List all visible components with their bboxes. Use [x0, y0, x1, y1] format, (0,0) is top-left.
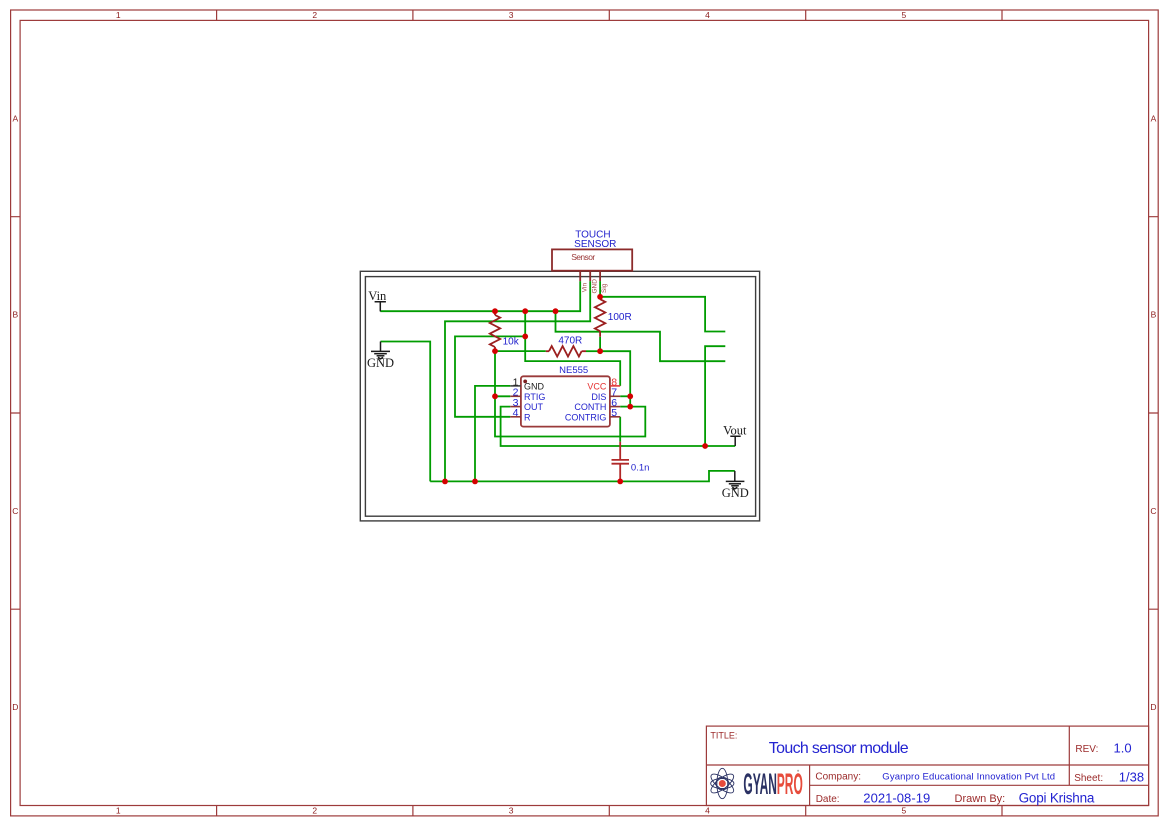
wire VCC net to pin 8 [525, 311, 620, 386]
svg-text:4: 4 [705, 10, 710, 20]
svg-text:Sensor: Sensor [571, 252, 595, 262]
svg-text:Gopi Krishna: Gopi Krishna [1019, 791, 1095, 806]
pin numbers right [611, 376, 617, 419]
column ticks top [217, 10, 1002, 20]
svg-text:4: 4 [705, 806, 710, 816]
pin GND of sensor [589, 271, 591, 281]
junction VCC branch / reset net [522, 334, 528, 340]
wire pin 5 to capacitor [619, 417, 621, 442]
svg-text:NE555: NE555 [559, 365, 588, 376]
junction Vin rail / 10k [492, 308, 498, 314]
pin 6 stub [610, 406, 620, 408]
pin 5 stub [610, 416, 620, 418]
pin Sig of sensor [599, 271, 601, 281]
junction rail / capacitor [617, 479, 623, 485]
svg-text:CONTH: CONTH [574, 402, 606, 412]
svg-text:D: D [12, 702, 18, 712]
wire pin 6 stub connection [620, 406, 630, 408]
pin labels left [524, 381, 545, 422]
svg-text:2: 2 [312, 806, 317, 816]
pin 7 stub [610, 395, 620, 397]
svg-text:GND: GND [367, 356, 394, 370]
svg-text:Vin: Vin [368, 289, 387, 303]
junction 470R right / 100R bottom [597, 348, 603, 354]
connector J1 Sensor [552, 249, 632, 293]
wire 100R bottom row to right stub [556, 311, 726, 361]
svg-text:1/38: 1/38 [1119, 769, 1144, 784]
svg-text:1: 1 [116, 806, 121, 816]
junction Vin rail / VCC branch [522, 308, 528, 314]
wire reset pin 4 net [455, 336, 525, 416]
net flag Vin [368, 289, 387, 312]
junction pin 7 [627, 393, 633, 399]
pin 1 stub [510, 385, 521, 387]
svg-text:D: D [1150, 702, 1156, 712]
resistor 100R [595, 297, 605, 337]
svg-text:PRO: PRO [777, 766, 803, 800]
svg-text:Sheet:: Sheet: [1074, 773, 1103, 784]
svg-text:VCC: VCC [587, 381, 607, 391]
wire pin 2 loop to pin 6 [495, 396, 645, 436]
net flag Vout [723, 423, 747, 446]
row ticks left [11, 217, 21, 610]
row ticks right [1149, 217, 1159, 610]
svg-text:TITLE:: TITLE: [710, 731, 737, 741]
svg-text:GND: GND [591, 279, 598, 294]
resistor 470R [546, 346, 586, 356]
junction pin 6 [627, 404, 633, 410]
svg-text:DIS: DIS [591, 392, 606, 402]
wire sensor GND pin to bottom rail [445, 281, 590, 481]
svg-text:10k: 10k [503, 336, 520, 347]
pin 3 stub [510, 406, 521, 408]
wire 470R left lead [495, 350, 546, 352]
svg-text:2021-08-19: 2021-08-19 [863, 790, 930, 805]
junction pin 2 [492, 393, 498, 399]
wire GND flag left [381, 342, 431, 482]
junction Vout node [702, 443, 708, 449]
pin Vin of sensor [579, 271, 581, 281]
label TOUCH SENSOR [574, 230, 616, 250]
svg-text:OUT: OUT [524, 402, 544, 412]
wire 470R right node down to pin 7 [600, 351, 630, 406]
svg-text:B: B [12, 310, 18, 320]
ground GND left [371, 342, 390, 359]
wire 10k bottom to pin 2 [495, 351, 510, 396]
ground GND right [726, 471, 745, 489]
svg-text:CONTRIG: CONTRIG [565, 412, 607, 422]
svg-text:RTIG: RTIG [524, 392, 545, 402]
svg-text:Sig: Sig [601, 283, 608, 293]
capacitor 0.1n [612, 442, 630, 482]
pin numbers left [513, 376, 519, 419]
svg-text:R: R [524, 412, 531, 422]
wire sensor Sig pin to junction [599, 281, 601, 297]
pin 1 indicator dot [523, 380, 527, 384]
svg-text:REV:: REV: [1075, 744, 1098, 755]
svg-text:C: C [1150, 506, 1156, 516]
pin labels right [565, 381, 607, 422]
svg-text:A: A [12, 113, 18, 123]
svg-text:5: 5 [611, 407, 617, 419]
svg-text:GND: GND [524, 381, 545, 391]
column ticks bottom [217, 806, 1002, 816]
svg-text:B: B [1151, 310, 1157, 320]
svg-text:GND: GND [722, 486, 749, 500]
wire 470R right lead [586, 350, 600, 352]
svg-text:5: 5 [902, 806, 907, 816]
svg-text:Vin: Vin [581, 283, 588, 293]
svg-text:100R: 100R [608, 312, 632, 323]
IC U1 NE555 [510, 365, 620, 427]
junction Sig node [597, 294, 603, 300]
svg-text:4: 4 [513, 407, 519, 419]
svg-text:Touch sensor module: Touch sensor module [769, 740, 909, 757]
svg-text:SENSOR: SENSOR [574, 239, 616, 250]
svg-text:GYAN: GYAN [743, 766, 777, 800]
junction rail / pin 1 [472, 479, 478, 485]
svg-text:0.1n: 0.1n [631, 462, 650, 473]
svg-text:1.0: 1.0 [1114, 740, 1132, 755]
svg-text:1: 1 [116, 10, 121, 20]
junction Vin rail / 100R row branch [553, 308, 559, 314]
wire 100R bottom lead to node [599, 337, 601, 351]
resistor R? 10k [490, 311, 500, 351]
svg-text:Drawn By:: Drawn By: [955, 793, 1006, 805]
wire OUT pin 3 to Vout [501, 407, 736, 446]
svg-text:2: 2 [312, 10, 317, 20]
wire pin 7 stub connection [620, 395, 630, 397]
wire Sig node to right stub [600, 297, 725, 332]
svg-text:5: 5 [902, 10, 907, 20]
svg-text:Date:: Date: [816, 794, 840, 805]
junction 10k bottom / 470R [492, 348, 498, 354]
pin 4 stub [510, 416, 521, 418]
svg-text:Vout: Vout [723, 423, 747, 437]
wire pin 1 to ground rail [475, 386, 510, 482]
junction rail / sensor GND [442, 479, 448, 485]
svg-text:Gyanpro Educational Innovation: Gyanpro Educational Innovation Pvt Ltd [882, 772, 1055, 783]
svg-text:470R: 470R [558, 336, 582, 347]
logo GYANPRO [708, 766, 803, 800]
pin 2 stub [510, 395, 521, 397]
svg-text:C: C [12, 506, 18, 516]
schematic border box (double gray rectangle) [360, 271, 759, 521]
wire bottom ground rail [430, 471, 735, 482]
wire Vin rail [380, 281, 580, 311]
wire Vout vertical with stub [705, 346, 725, 446]
pin 8 stub [610, 385, 620, 387]
svg-text:Company:: Company: [815, 771, 861, 782]
svg-text:3: 3 [509, 10, 514, 20]
svg-text:3: 3 [509, 806, 514, 816]
svg-text:A: A [1151, 113, 1157, 123]
